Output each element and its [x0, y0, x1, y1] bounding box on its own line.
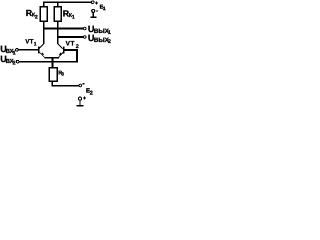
polarity plus E1 — [95, 2, 98, 5]
svg-text:VT: VT — [66, 41, 76, 48]
node input 2 terminal — [16, 60, 19, 63]
label RK1 — [63, 9, 75, 21]
node output 2 terminal — [83, 36, 86, 39]
battery E2 common terminal — [77, 97, 84, 107]
transistor VT2 — [58, 44, 65, 58]
label RK2 — [26, 8, 38, 20]
label VT1 — [25, 39, 37, 48]
label U_BX2 — [0, 54, 15, 67]
svg-text:2: 2 — [13, 60, 16, 66]
svg-text:1: 1 — [34, 41, 37, 47]
svg-text:3: 3 — [61, 72, 64, 77]
wire riser RK2 top — [43, 2, 45, 7]
wire base VT1 — [18, 49, 38, 51]
transistor VT1 — [38, 44, 45, 58]
wire collector VT2 vertical — [57, 21, 59, 44]
wire R3 bottom to E2 — [52, 82, 79, 87]
wire emitter common line — [45, 57, 60, 59]
transistor VT1 emitter arrow — [41, 52, 44, 55]
label U_BYX2 — [88, 33, 111, 45]
wire riser RK1 top — [57, 2, 59, 7]
resistor RK1 — [54, 7, 61, 21]
wire collector VT1 vertical — [43, 21, 45, 44]
resistor R3 — [49, 68, 57, 81]
label R3 — [58, 70, 64, 76]
wire top supply rail — [43, 1, 91, 3]
wire base VT2 route — [19, 49, 78, 63]
polarity minus E1 symbol — [96, 11, 98, 12]
label E2 — [86, 88, 93, 97]
svg-text:VT: VT — [25, 39, 34, 46]
wire output 1 — [43, 28, 83, 30]
node input 1 terminal — [16, 49, 19, 52]
svg-text:1: 1 — [108, 30, 111, 36]
node E2 terminal — [79, 84, 82, 87]
svg-text:1: 1 — [103, 6, 106, 12]
polarity plus E2 symbol — [83, 97, 86, 100]
polarity minus E2 — [82, 83, 84, 84]
svg-text:2: 2 — [76, 44, 79, 50]
node output 1 terminal — [83, 27, 86, 30]
label U_BYX1 — [88, 24, 111, 36]
node E1 terminal — [91, 1, 94, 4]
resistor RK2 — [40, 7, 47, 21]
svg-text:2: 2 — [90, 90, 93, 96]
svg-text:2: 2 — [35, 14, 38, 20]
label E1 — [100, 4, 106, 12]
label VT2 — [66, 41, 79, 50]
wire emitter to R3 stub — [52, 58, 54, 68]
wire output 2 — [57, 36, 83, 38]
svg-text:1: 1 — [13, 50, 16, 56]
transistor VT2 emitter arrow — [59, 52, 62, 55]
label U_BX1 — [0, 44, 15, 56]
svg-text:2: 2 — [108, 39, 111, 45]
battery E1 common terminal — [90, 9, 96, 17]
svg-text:1: 1 — [72, 15, 75, 21]
